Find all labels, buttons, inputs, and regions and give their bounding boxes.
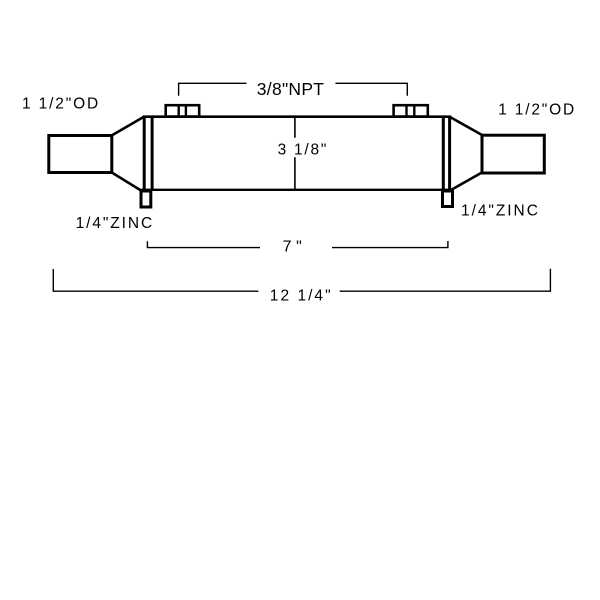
svg-text:3 1/8": 3 1/8" <box>278 141 327 158</box>
svg-text:1/4"ZINC: 1/4"ZINC <box>461 203 538 220</box>
svg-text:1 1/2"OD: 1 1/2"OD <box>498 102 574 119</box>
svg-text:1/4"ZINC: 1/4"ZINC <box>76 215 153 232</box>
svg-text:3/8"NPT: 3/8"NPT <box>257 79 324 99</box>
svg-text:1 1/2"OD: 1 1/2"OD <box>22 95 98 112</box>
